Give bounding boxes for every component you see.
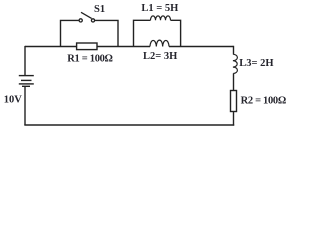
wire right vertical lower bbox=[233, 112, 235, 126]
svg-text:L2= 3H: L2= 3H bbox=[143, 51, 177, 62]
svg-text:10V: 10V bbox=[4, 94, 23, 105]
inductor L2 bbox=[150, 40, 169, 46]
wire L1 branch right vertical bbox=[171, 20, 181, 46]
svg-text:R1 = 100Ω: R1 = 100Ω bbox=[67, 53, 112, 64]
wire top rail left segment bbox=[25, 46, 150, 48]
inductor L3 bbox=[233, 54, 238, 73]
wire left vertical (battery top stub) bbox=[24, 46, 26, 76]
svg-text:R2 = 100Ω: R2 = 100Ω bbox=[241, 95, 286, 106]
resistor R2 bbox=[231, 91, 237, 112]
wire top rail right segment bbox=[169, 46, 234, 48]
wire L1 branch left vertical bbox=[134, 20, 151, 46]
wire right vertical middle bbox=[233, 73, 235, 90]
inductor L1 bbox=[151, 16, 171, 20]
svg-text:L3= 2H: L3= 2H bbox=[239, 58, 273, 69]
wire bottom rail bbox=[24, 124, 234, 126]
battery 10V bbox=[19, 76, 34, 87]
resistor R1 bbox=[77, 43, 97, 50]
wire left vertical (battery bottom stub) bbox=[24, 86, 26, 125]
switch S1 bbox=[79, 12, 95, 22]
svg-text:L1 = 5H: L1 = 5H bbox=[141, 3, 178, 14]
wire S1 branch left vertical bbox=[61, 20, 80, 46]
wire S1 branch right vertical bbox=[95, 20, 118, 46]
wire right vertical upper bbox=[233, 46, 235, 55]
svg-text:S1: S1 bbox=[94, 4, 105, 15]
